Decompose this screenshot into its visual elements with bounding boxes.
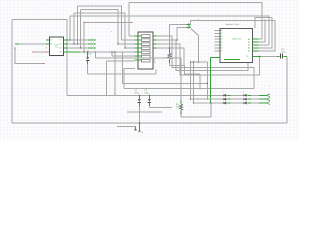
right pin stubs green <box>211 39 261 103</box>
wire <box>15 43 49 45</box>
body rect <box>0 0 300 141</box>
svg-text:P2: P2 <box>50 44 52 46</box>
wire <box>67 43 134 45</box>
IC1 red labels <box>46 48 48 54</box>
wire <box>148 101 152 103</box>
wire <box>46 40 49 44</box>
header pin leads green with arrow ends <box>88 40 93 48</box>
svg-text:P1: P1 <box>50 40 52 42</box>
connector J1 <box>122 32 157 72</box>
svg-text:10k: 10k <box>153 62 156 64</box>
junction <box>95 51 96 52</box>
pin labels <box>221 30 251 58</box>
wire <box>180 100 182 104</box>
wire <box>224 59 240 61</box>
switch S1 <box>169 19 200 62</box>
body rect <box>142 51 151 54</box>
wire <box>95 52 181 58</box>
wire <box>86 59 90 61</box>
wire <box>148 102 150 106</box>
wire <box>169 48 171 53</box>
red unconnected endpoint <box>131 22 132 23</box>
wire <box>284 56 288 58</box>
junction <box>198 61 199 62</box>
svg-text:Arduino D Uno1: Arduino D Uno1 <box>226 23 239 26</box>
svg-text:D7: D7 <box>221 51 223 53</box>
wire <box>135 36 142 60</box>
svg-text:B2: B2 <box>60 48 62 50</box>
body rect <box>142 35 151 38</box>
resistor R5 vertical bottom <box>176 100 212 117</box>
resistor R4 vertical <box>153 48 172 64</box>
wire <box>87 52 89 57</box>
junction <box>139 95 140 96</box>
svg-text:B3: B3 <box>60 52 62 54</box>
wire <box>33 51 49 53</box>
body rect <box>142 55 151 58</box>
wire <box>223 94 226 96</box>
wire <box>64 40 81 52</box>
wire <box>215 31 220 52</box>
wire <box>153 36 157 48</box>
header arrow tips <box>93 39 95 49</box>
long line through caps y95.3 = diode row 1 <box>67 94 267 96</box>
junction <box>114 95 115 96</box>
junction <box>66 43 67 44</box>
wire <box>106 60 134 62</box>
svg-text:711: 711 <box>55 47 58 49</box>
svg-text:5V: 5V <box>246 56 248 58</box>
wire <box>244 94 247 96</box>
wire <box>259 44 269 46</box>
wire <box>277 56 280 58</box>
junction <box>69 39 70 40</box>
tiny designators above diodes <box>223 86 271 94</box>
junction <box>83 51 84 52</box>
wire <box>138 95 140 99</box>
wire top y13 <box>74 13 125 48</box>
capacitor C1 <box>135 90 142 123</box>
wire <box>228 102 267 104</box>
wire <box>169 60 171 64</box>
wire right vertical <box>286 57 288 124</box>
wire <box>81 51 135 53</box>
body rect <box>220 29 253 63</box>
red unconnected endpoint <box>43 63 44 64</box>
wire <box>244 102 247 104</box>
junction <box>199 88 200 89</box>
junction <box>177 39 178 40</box>
junction <box>80 47 81 48</box>
svg-text:V+: V+ <box>60 40 62 42</box>
IC1 right pin stubs, pin4 long green <box>64 40 81 52</box>
wire <box>180 58 182 100</box>
junction <box>114 51 115 52</box>
svg-text:100n: 100n <box>144 92 148 94</box>
wire y112 from cap C1 <box>127 111 162 113</box>
wire <box>88 70 156 75</box>
wire <box>86 57 89 59</box>
wire <box>114 52 116 95</box>
junction <box>190 99 191 100</box>
wire <box>138 101 142 103</box>
ground symbols under bus <box>117 122 144 134</box>
wire <box>129 35 135 37</box>
wire <box>223 98 226 100</box>
svg-text:100n: 100n <box>281 51 285 53</box>
wire <box>211 58 220 103</box>
junction <box>210 102 211 103</box>
middle-bottom cascade wires <box>88 52 254 100</box>
diode rows 2 and 3 <box>191 99 267 103</box>
junction <box>77 43 78 44</box>
wire <box>139 123 141 131</box>
IC1 pin labels green inside <box>50 40 61 54</box>
wire bottom bus <box>12 122 287 124</box>
wire <box>179 104 182 110</box>
body rect <box>142 59 151 62</box>
red unconnected endpoint <box>32 51 33 52</box>
wire <box>228 98 267 100</box>
svg-text:D0: D0 <box>221 30 223 32</box>
wire <box>105 61 107 96</box>
junction dots in bundle <box>66 39 125 52</box>
wire <box>187 25 191 28</box>
diode symbols: 2 columns x 3 rows <box>223 94 246 104</box>
wire top y6 <box>78 6 122 44</box>
junction <box>117 43 118 44</box>
wire <box>148 99 151 101</box>
IC1 body <box>46 37 81 56</box>
svg-text:D2: D2 <box>221 36 223 38</box>
wire <box>87 60 89 64</box>
wire top y16 <box>70 16 269 45</box>
left pin stubs <box>215 31 220 52</box>
wire <box>255 18 272 48</box>
wire <box>15 48 44 64</box>
wire <box>157 44 260 75</box>
LED D2 vertical <box>86 51 92 74</box>
wire <box>253 39 259 51</box>
wire <box>259 38 262 40</box>
junction <box>210 102 211 103</box>
wire <box>157 40 249 71</box>
wire left vertical bus <box>11 20 13 124</box>
green arrow ends <box>267 94 271 105</box>
svg-text:D1: D1 <box>221 33 223 35</box>
wire <box>180 111 182 114</box>
junction <box>259 56 260 57</box>
capacitor C2 <box>144 90 172 108</box>
junction <box>264 20 265 21</box>
wire <box>124 69 254 89</box>
wire <box>87 64 89 74</box>
tiny pin name specks <box>92 38 93 48</box>
wire <box>134 130 137 131</box>
wire <box>168 53 171 59</box>
junction <box>73 43 74 44</box>
junction <box>180 112 181 113</box>
green segments on rows <box>228 95 267 103</box>
wire <box>198 36 200 63</box>
junction <box>190 61 191 62</box>
wire <box>157 36 254 89</box>
junction <box>139 111 140 112</box>
wire <box>83 23 85 53</box>
right IC (Arduino) <box>211 23 261 103</box>
red unconnected endpoint <box>14 47 15 48</box>
wire <box>261 56 277 58</box>
svg-text:100n: 100n <box>135 92 139 94</box>
wire <box>259 20 275 51</box>
wire <box>281 54 283 59</box>
wire <box>253 56 262 58</box>
junction <box>106 95 107 96</box>
svg-text:D5: D5 <box>221 45 223 47</box>
wire <box>138 99 141 101</box>
wire <box>157 48 184 65</box>
body rect <box>138 32 153 69</box>
IC1 left pin stubs <box>46 40 49 44</box>
body rect <box>142 39 151 42</box>
wire <box>191 29 199 36</box>
wire <box>228 94 267 96</box>
wires right of IC <box>191 18 277 57</box>
junction <box>207 99 208 100</box>
wire <box>223 102 226 104</box>
wire <box>244 98 247 100</box>
wire <box>138 131 141 132</box>
junction <box>149 95 150 96</box>
wire <box>267 98 271 101</box>
body rect <box>142 43 151 46</box>
wire top y9.5 <box>81 10 119 49</box>
wire <box>177 27 186 40</box>
wire <box>191 62 208 99</box>
wire <box>67 47 134 49</box>
wire top y2.5 <box>129 3 262 40</box>
body rect <box>142 47 151 50</box>
wire <box>67 39 134 41</box>
wire <box>267 102 271 105</box>
wire <box>138 106 140 123</box>
body rect <box>49 37 63 56</box>
wire <box>267 94 271 97</box>
junction <box>207 83 208 84</box>
wire <box>190 62 192 99</box>
wire red-ended y22.5 <box>83 22 132 52</box>
junction <box>193 61 194 62</box>
wires connector right side cascade <box>157 36 260 103</box>
wire <box>135 126 137 129</box>
wire <box>117 125 135 127</box>
wire <box>170 63 201 89</box>
wire <box>188 23 190 28</box>
wire <box>84 22 132 24</box>
junction <box>67 39 68 40</box>
red unconnected endpoint <box>83 22 84 23</box>
junction <box>111 51 112 52</box>
capacitor C3 horizontal <box>277 49 287 59</box>
wire <box>170 25 187 49</box>
junction <box>169 47 170 48</box>
wire <box>138 102 140 106</box>
junction <box>139 122 140 123</box>
svg-text:D4: D4 <box>221 42 223 44</box>
svg-text:D3: D3 <box>221 39 223 41</box>
wire <box>15 43 19 45</box>
wire <box>148 95 150 99</box>
wire top y19.5 with long vertical x67 down to cap line <box>12 20 67 96</box>
junction <box>124 47 125 48</box>
svg-text:B1: B1 <box>60 44 62 46</box>
svg-text:a: a <box>111 31 112 33</box>
wire <box>122 52 207 84</box>
wire <box>181 103 211 117</box>
bundle wires IC1 to connector <box>67 36 134 95</box>
wire <box>149 106 172 108</box>
svg-text:D6: D6 <box>221 48 223 50</box>
junction <box>87 51 88 52</box>
junction <box>193 102 194 103</box>
wire <box>191 20 275 42</box>
IC1 left wires <box>15 44 49 64</box>
wire <box>112 52 135 56</box>
wire <box>193 62 195 103</box>
